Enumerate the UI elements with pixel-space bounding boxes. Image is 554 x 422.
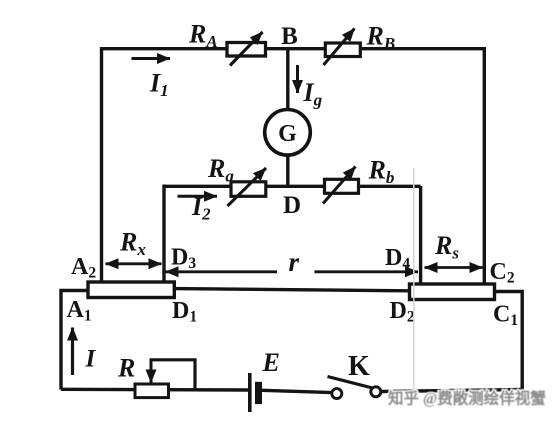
bar resistor Rx body (left slide bar) xyxy=(88,282,174,298)
svg-text:C2: C2 xyxy=(490,259,515,287)
svg-text:C1: C1 xyxy=(493,302,518,330)
watermark zhihu xyxy=(388,389,546,408)
wire inner-left vertical (to D3) xyxy=(162,185,165,284)
svg-text:D: D xyxy=(283,192,301,219)
svg-text:D1: D1 xyxy=(172,298,197,326)
svg-text:RA: RA xyxy=(188,20,218,52)
artifact faint vertical line xyxy=(413,168,415,397)
wire node B to galvanometer xyxy=(286,48,289,110)
switch K right contact xyxy=(371,387,381,397)
wire C1 (bar right side to lower-right corner) xyxy=(493,292,522,391)
wire right outer vertical xyxy=(483,47,486,287)
svg-text:r: r xyxy=(289,247,300,277)
resistor Rb xyxy=(323,167,359,204)
wire A1 (bar left side to lower-left corner) xyxy=(61,291,90,390)
switch K lever xyxy=(328,377,373,389)
resistor RB xyxy=(324,29,361,66)
svg-text:A2: A2 xyxy=(71,254,96,282)
measure arrow Rx xyxy=(106,262,162,265)
wire inner-right vertical (to D4) xyxy=(419,186,422,286)
svg-text:Rs: Rs xyxy=(434,231,459,263)
svg-text:D3: D3 xyxy=(171,245,196,273)
wire top (B row) xyxy=(100,47,485,50)
svg-text:D2: D2 xyxy=(390,298,415,326)
arrow I xyxy=(71,328,74,376)
svg-text:I: I xyxy=(85,346,97,373)
svg-text:知乎 @费敞测绘佯视蟹: 知乎 @费敞测绘佯视蟹 xyxy=(388,389,546,408)
battery E short plate xyxy=(255,382,262,404)
switch K left contact xyxy=(332,389,342,399)
svg-text:B: B xyxy=(281,23,298,50)
wire middle (D row) xyxy=(164,185,421,188)
svg-text:G: G xyxy=(278,121,297,147)
arrow Ig xyxy=(296,65,299,93)
svg-text:RB: RB xyxy=(366,22,396,54)
resistor Ra xyxy=(228,168,267,206)
svg-text:K: K xyxy=(348,351,370,382)
svg-text:Rx: Rx xyxy=(119,228,146,260)
wire galvanometer to node D xyxy=(286,154,289,188)
measure arrow Rs xyxy=(425,266,483,269)
svg-text:Ra: Ra xyxy=(207,154,234,186)
bar resistor Rs body (right slide bar) xyxy=(410,284,495,300)
wire battery to switch xyxy=(262,390,332,392)
galvanometer G xyxy=(265,110,311,156)
wire left outer vertical xyxy=(100,47,103,283)
measure arrow r right half xyxy=(315,270,419,273)
arrow I2 xyxy=(178,195,218,198)
svg-text:E: E xyxy=(262,348,280,377)
resistor RA xyxy=(227,32,266,66)
wire bottom left segment (to battery) xyxy=(61,388,249,392)
svg-text:A1: A1 xyxy=(67,297,92,325)
svg-text:I1: I1 xyxy=(149,69,169,101)
svg-text:Rb: Rb xyxy=(368,156,395,188)
wire switch to lower-right corner xyxy=(381,390,523,392)
svg-text:D4: D4 xyxy=(385,245,410,273)
wire r (between left and right bars) xyxy=(173,289,410,291)
measure arrow r left half xyxy=(166,270,278,273)
battery E long plate xyxy=(248,373,252,412)
rheostat R xyxy=(135,360,195,398)
svg-text:R: R xyxy=(117,354,135,383)
arrow I1 xyxy=(132,57,171,60)
svg-text:Ig: Ig xyxy=(303,78,323,110)
